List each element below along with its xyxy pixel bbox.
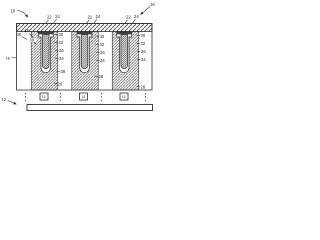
- svg-text:22: 22: [88, 15, 93, 20]
- svg-text:30: 30: [59, 32, 64, 37]
- svg-text:28: 28: [58, 82, 63, 87]
- svg-text:32: 32: [100, 42, 105, 47]
- svg-text:24: 24: [55, 14, 60, 19]
- svg-text:26: 26: [59, 48, 64, 53]
- svg-text:18: 18: [6, 56, 10, 60]
- svg-text:16: 16: [150, 2, 155, 7]
- svg-text:30: 30: [100, 34, 105, 39]
- svg-text:22: 22: [126, 15, 131, 20]
- svg-text:28: 28: [141, 85, 146, 90]
- svg-text:34: 34: [100, 58, 105, 63]
- svg-text:38: 38: [30, 38, 35, 43]
- svg-text:24: 24: [134, 14, 139, 19]
- svg-text:36: 36: [61, 69, 66, 74]
- svg-text:12: 12: [2, 97, 7, 102]
- svg-text:22: 22: [47, 15, 52, 20]
- svg-text:14: 14: [42, 95, 46, 99]
- svg-text:10: 10: [11, 9, 16, 14]
- svg-text:26: 26: [100, 50, 105, 55]
- svg-text:40: 40: [17, 32, 22, 37]
- svg-text:26: 26: [141, 49, 146, 54]
- svg-text:30: 30: [141, 33, 146, 38]
- svg-text:28: 28: [99, 74, 104, 79]
- svg-text:14: 14: [81, 95, 85, 99]
- svg-text:34: 34: [59, 56, 64, 61]
- svg-text:24: 24: [96, 14, 101, 19]
- svg-text:34: 34: [141, 57, 146, 62]
- svg-text:32: 32: [59, 40, 64, 45]
- svg-text:14: 14: [122, 95, 126, 99]
- svg-text:32: 32: [141, 41, 146, 46]
- svg-text:44: 44: [24, 29, 29, 34]
